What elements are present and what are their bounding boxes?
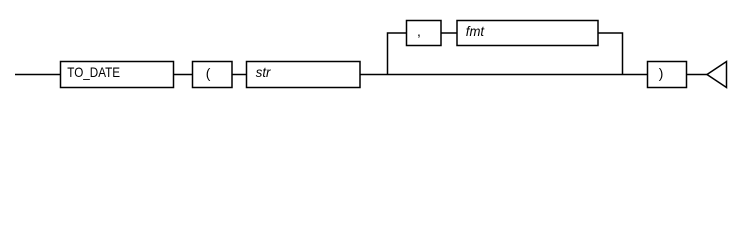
wire , to fmt [441, 32, 457, 34]
wire ( to str [232, 74, 247, 76]
svg-text:,: , [417, 24, 421, 39]
terminal box ( [193, 62, 233, 88]
operand box fmt [457, 21, 598, 46]
wire main line str to ) [360, 74, 648, 76]
svg-text:TO_DATE: TO_DATE [67, 65, 120, 80]
wire start line [15, 74, 61, 76]
wire branch down right [598, 33, 623, 75]
svg-text:fmt: fmt [466, 24, 485, 39]
terminal box ) [648, 62, 687, 88]
wire branch riser up [388, 33, 407, 75]
svg-text:str: str [256, 65, 272, 80]
wire ) to arrow [687, 74, 708, 76]
end terminator arrow [707, 62, 727, 88]
svg-text:): ) [659, 66, 664, 81]
keyword box TO_DATE [61, 62, 174, 88]
operand box str [247, 62, 361, 88]
terminal box , [407, 21, 442, 46]
wire TO_DATE to ( [174, 74, 193, 76]
svg-text:(: ( [206, 66, 211, 81]
